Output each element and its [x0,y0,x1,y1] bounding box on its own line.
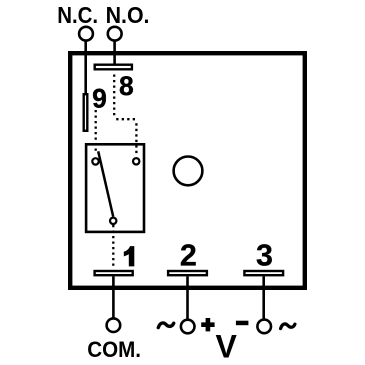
contact block box [86,144,144,232]
svg-text:9: 9 [92,83,107,113]
dotted link from common contact to bar 1 [112,225,114,269]
label N.O. [106,2,150,28]
AC minus terminal circle [257,320,271,334]
svg-text:N.C.: N.C. [57,2,98,28]
svg-text:V: V [216,328,238,364]
terminal bar 3 [244,271,283,275]
wire terminal 2 [186,276,189,319]
svg-text:N.O.: N.O. [106,2,150,28]
indicator circle [174,157,203,186]
terminal bar 2 [168,271,207,275]
label 9 [92,83,107,113]
wire N.C. lead to bar 9 [84,41,87,95]
svg-text:2: 2 [180,239,197,273]
dotted link from bar 9 to N.C. contact [95,110,97,151]
terminal bar 8 [95,65,132,70]
svg-text:COM.: COM. [87,337,141,362]
wire terminal 3 [262,276,265,319]
label 1 [124,246,135,266]
label 8 [119,71,134,101]
wire N.O. lead to bar 8 [113,41,116,65]
label 2 [180,239,197,273]
label V [216,328,238,364]
svg-text:3: 3 [256,239,273,273]
label 3 [256,239,273,273]
switch lever [98,151,113,216]
COM terminal circle [107,318,121,332]
svg-text:8: 8 [119,71,134,101]
label ~ right [281,324,295,329]
label + [201,318,214,331]
AC plus terminal circle [181,320,195,334]
terminal circle N.O. [108,27,122,41]
N.C. contact circle [92,158,98,164]
terminal bar 9 [84,94,88,131]
terminal bar 1 [95,271,133,275]
label COM. [87,337,141,362]
common contact circle [110,218,116,224]
label minus [236,321,249,326]
label N.C. [57,2,98,28]
relay body box [70,53,305,288]
wire terminal 1 to COM [112,276,115,318]
terminal circle N.C. [79,27,93,41]
N.O. contact circle [133,158,139,164]
dotted link from bar 8 to N.O. contact [114,75,137,155]
label ~ left [158,323,173,328]
